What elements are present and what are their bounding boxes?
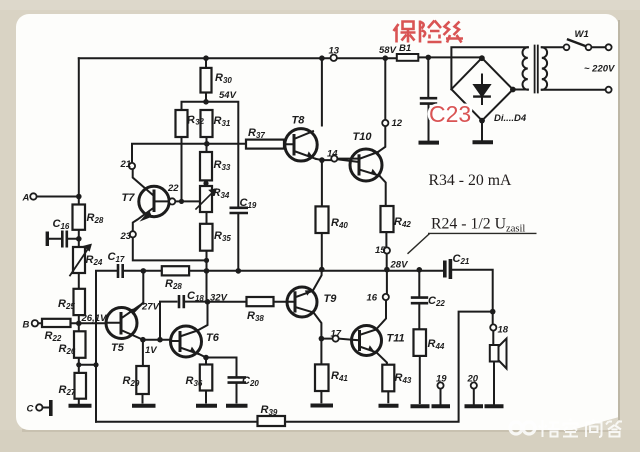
wire speaker branch node18: [493, 312, 494, 404]
ground under bridge: [473, 140, 494, 144]
wire node 22 to R34: [175, 200, 199, 202]
svg-text:~ 220V: ~ 220V: [584, 64, 615, 75]
wire C18 left lead: [160, 302, 177, 340]
diode inside bridge: [481, 75, 483, 86]
wire switch to terminal: [591, 46, 605, 48]
svg-text:B1: B1: [399, 43, 411, 54]
svg-text:26,1V: 26,1V: [81, 313, 107, 324]
resistor R31: [201, 110, 213, 137]
svg-text:21: 21: [120, 159, 132, 170]
POWER SECTION: [397, 40, 606, 369]
node dot rail R40: [319, 267, 325, 273]
resistor R37: [246, 140, 284, 149]
TRANSISTORS: [106, 129, 382, 357]
resistor R29: [136, 366, 149, 394]
svg-text:C: C: [27, 404, 34, 415]
svg-text:16: 16: [367, 293, 378, 304]
CAPACITORS: [47, 98, 450, 416]
ground under node 19: [432, 404, 451, 408]
node dot R31 bottom: [204, 141, 210, 147]
svg-text:20: 20: [467, 374, 479, 385]
capacitor C16 left stub bar: [46, 232, 49, 247]
underline of annotation: [428, 232, 537, 234]
svg-text:23: 23: [120, 231, 132, 242]
node 13: [331, 55, 337, 61]
transistor T5: [106, 308, 137, 339]
svg-text:B: B: [23, 320, 30, 331]
node 20: [471, 382, 477, 388]
ground under R36: [196, 404, 217, 408]
svg-text:13: 13: [329, 46, 340, 57]
transformer secondary winding: [542, 47, 547, 89]
capacitor C18: [179, 295, 184, 308]
resistor R40: [316, 206, 329, 233]
node 17: [333, 336, 339, 342]
node dot A junction: [76, 194, 82, 200]
node 15: [384, 247, 390, 253]
svg-text:T11: T11: [387, 333, 405, 345]
resistor R44: [414, 329, 427, 356]
resistor R35: [200, 224, 213, 251]
svg-text:18: 18: [498, 325, 509, 336]
wire left vertical net (A chain): [78, 58, 80, 405]
node 16: [383, 294, 389, 300]
resistor R30: [201, 68, 212, 93]
wire R30 branch: [205, 58, 207, 102]
mains terminal bottom: [606, 87, 612, 93]
wire node20 stub: [473, 389, 475, 405]
wire T10 emitter to R42: [380, 176, 386, 206]
node 19: [437, 382, 443, 388]
RESISTORS: [42, 68, 426, 426]
svg-text:1V: 1V: [145, 345, 157, 356]
wire C19 branch lower: [237, 214, 239, 271]
capacitor C17: [118, 264, 123, 278]
wire R32 bottom to node 22 line: [181, 137, 183, 201]
resistor R27: [75, 373, 87, 399]
wire top supply rail: [79, 56, 482, 59]
resistor R32: [176, 110, 188, 137]
transistor T10: [350, 149, 382, 181]
wire T6 emitter node: [199, 354, 207, 403]
node dot C18 drop: [157, 337, 163, 343]
svg-text:C23: C23: [429, 101, 471, 127]
wire feedback line C17 to bottom bus: [96, 271, 117, 422]
svg-text:A: A: [22, 193, 30, 204]
node 22: [169, 198, 175, 204]
wire T9 collector: [313, 270, 322, 291]
red text fuse (baoxiansi) drawn strokes: [394, 21, 464, 43]
wire secondary top to switch: [542, 46, 564, 48]
resistor R43: [382, 365, 394, 392]
svg-text:32V: 32V: [210, 293, 228, 304]
resistor R28: [73, 205, 86, 230]
ground under speaker: [485, 404, 504, 408]
node dot speaker net corner: [490, 309, 496, 315]
wire 32V node to R38: [208, 301, 288, 303]
wire R31-R33-R34-R35 vertical chain: [206, 137, 208, 271]
svg-text:28V: 28V: [390, 260, 409, 271]
WATERMARK: [510, 419, 622, 438]
capacitor C22: [411, 298, 428, 304]
terminal B: [32, 320, 38, 326]
transformer primary winding: [523, 47, 528, 89]
capacitor C23: [420, 98, 437, 103]
switch terminal right: [586, 44, 592, 50]
node dot R30 bottom 54V: [203, 99, 209, 105]
resistor R34 (trimmer): [200, 186, 212, 212]
svg-text:14: 14: [327, 149, 338, 160]
speaker: [490, 345, 499, 362]
transistor T7: [139, 186, 169, 216]
node dot fuse left: [383, 55, 389, 61]
wire T6 emitter to C20: [206, 358, 237, 403]
transformer core: [535, 46, 538, 93]
svg-text:22: 22: [167, 183, 179, 194]
wire C22 R44 branch: [418, 270, 421, 403]
node dot rail R42: [384, 267, 390, 273]
GROUND SYMBOLS: [69, 142, 504, 406]
fuse B1: [397, 54, 419, 61]
resistor R38: [247, 297, 274, 306]
wire R42 to node15 to rail: [385, 232, 387, 270]
node 21: [129, 163, 135, 169]
svg-text:19: 19: [436, 374, 447, 385]
resistor R33: [200, 152, 212, 180]
ANNOTATION TEXTS: [408, 172, 537, 254]
svg-text:27V: 27V: [141, 302, 160, 313]
node 14: [331, 156, 337, 162]
transistor T11: [352, 326, 382, 356]
svg-text:W1: W1: [575, 29, 589, 40]
trimmer arrow on R34: [196, 190, 215, 209]
wire node16 riser T11 collector: [376, 270, 387, 330]
terminal C end bar: [49, 400, 53, 416]
wire R30 bottom node horizontals: [182, 102, 239, 208]
svg-text:17: 17: [331, 329, 342, 340]
transistor T9: [287, 287, 317, 317]
terminal A: [30, 193, 36, 199]
svg-text:T7: T7: [122, 192, 136, 204]
capacitor C20: [228, 377, 247, 382]
wire C18 right lead to 32V node: [186, 301, 208, 303]
wire T5 emitter node to T6 base: [143, 339, 171, 341]
mains terminal top: [606, 44, 612, 50]
wire terminal B lead: [38, 322, 106, 324]
svg-text:T9: T9: [324, 293, 338, 305]
node dot bridge bottom vertex: [479, 118, 485, 124]
svg-text:Di....D4: Di....D4: [494, 113, 527, 124]
ground under R41: [311, 404, 334, 408]
wire C16 tap: [49, 238, 79, 240]
node dot node23 tie: [204, 258, 209, 263]
bridge rectifier D1...D4: [451, 58, 513, 121]
wire bridge left vertex riser: [451, 47, 527, 89]
wire 28V rail: [125, 270, 493, 312]
switch W1 lever: [568, 40, 588, 47]
svg-text:58V: 58V: [379, 45, 397, 56]
node dot C16 junction: [76, 236, 82, 242]
wire T10 collector riser with node12: [378, 58, 385, 152]
node dot C23 top: [426, 55, 432, 61]
wire T6 collector: [198, 302, 208, 331]
wire R26-R27 tie to feedback line: [79, 364, 96, 366]
transistor T8: [285, 129, 317, 161]
resistor R28b (feedback): [162, 266, 189, 275]
svg-text:T5: T5: [111, 342, 125, 354]
node 23: [130, 231, 136, 237]
wire terminal A lead: [37, 196, 79, 198]
node dot T9 emitter: [319, 336, 325, 342]
resistor R36: [200, 365, 213, 391]
node dot node22 R32 junction: [179, 199, 184, 204]
terminal C: [36, 404, 42, 410]
NODE / VOLTAGE LABELS: [22, 45, 616, 415]
switch terminal left: [564, 44, 570, 50]
node dot R26 tie left: [76, 362, 81, 367]
node dot R33-R34: [203, 181, 208, 186]
wire T11 emitter to R43: [377, 353, 389, 403]
svg-text:54V: 54V: [219, 90, 237, 101]
node dot T8 emitter: [319, 157, 325, 163]
svg-text:T6: T6: [206, 332, 220, 344]
resistor R41: [315, 364, 329, 391]
wire fuse node to C23: [427, 57, 429, 140]
transistor T6: [171, 326, 202, 357]
ground under R44: [411, 404, 430, 408]
node dot R26 tie right: [93, 362, 98, 367]
wire T5 collector riser: [134, 271, 144, 313]
wire node19 stub: [440, 389, 442, 405]
wire R29 drop: [142, 340, 144, 403]
wire bridge right vertex to winding: [513, 89, 528, 91]
resistor R26: [74, 331, 86, 358]
node dot rail C19: [236, 268, 242, 274]
wire bottom return bus: [96, 312, 493, 422]
capacitor C21 (electrolytic): [445, 259, 451, 279]
wire node21 to R31 junction line and R37 feed: [132, 144, 285, 163]
svg-text:T10: T10: [353, 131, 373, 143]
node dot T5 emitter: [140, 337, 146, 343]
ground under C23: [419, 141, 440, 145]
node dot bridge top vertex: [479, 55, 485, 61]
node dot 32V: [205, 299, 211, 305]
svg-text:R34 - 20 mA: R34 - 20 mA: [429, 172, 513, 189]
ground under R29: [132, 404, 156, 408]
RED OVERLAY TEXTS: [394, 21, 472, 128]
resistor R39: [258, 416, 286, 426]
node dot T6 emitter: [203, 355, 209, 361]
ground under R43: [379, 404, 399, 408]
pointer line: [408, 234, 430, 254]
resistor R22: [42, 319, 71, 327]
wire terminal C lead: [43, 407, 50, 409]
wire secondary bottom: [542, 89, 606, 91]
capacitor C19: [230, 208, 249, 213]
wire R40 bottom to rail: [321, 233, 323, 270]
wire T8 collector riser: [321, 58, 323, 125]
node 18: [490, 324, 496, 330]
wire 32V node riser from rail: [206, 271, 208, 302]
wire T8 emitter node14 row: [316, 159, 359, 206]
resistor R42: [381, 206, 394, 232]
node 12: [382, 120, 388, 126]
OPEN NODE CIRCLES: [30, 44, 611, 410]
capacitor C16: [62, 231, 67, 248]
svg-text:15: 15: [375, 245, 386, 256]
wire bridge bottom to ground: [481, 121, 483, 141]
wire T9 emitter to node17 and R41: [314, 313, 353, 403]
ground under node 20: [465, 404, 484, 408]
resistor R25: [74, 289, 86, 315]
svg-text:12: 12: [392, 118, 403, 129]
variable arrow on R24: [70, 247, 90, 276]
node dot rail C22: [417, 267, 423, 273]
ground under R27: [69, 404, 92, 408]
wire node23 tie to R35 bottom: [133, 238, 207, 261]
ground under C20: [226, 404, 248, 408]
svg-text:T8: T8: [292, 115, 306, 127]
node dot T8 collector top: [319, 55, 325, 61]
node dot rail T5 collector: [141, 268, 147, 274]
node dot bridge right vertex: [510, 87, 516, 93]
resistor R24 (variable): [73, 247, 85, 273]
node dot rail R35: [204, 268, 210, 274]
node dot B junction: [76, 321, 82, 327]
node dot R30 top: [203, 55, 209, 61]
